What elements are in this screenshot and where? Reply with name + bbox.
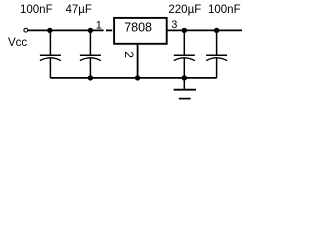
terminal Vcc (open circle)	[24, 28, 28, 32]
svg-text:3: 3	[171, 19, 177, 31]
pin 1 stub of U1	[106, 29, 112, 31]
ground	[174, 78, 196, 99]
svg-text:Vcc: Vcc	[8, 37, 27, 49]
capacitor C3 220µF	[174, 30, 195, 78]
svg-text:220µF: 220µF	[168, 4, 201, 16]
svg-text:2: 2	[122, 51, 136, 58]
node junction dot C3 top	[182, 28, 187, 33]
wire ground rail (bottom horizontal)	[50, 77, 216, 79]
capacitor C1 100nF	[40, 30, 61, 78]
svg-text:47µF: 47µF	[66, 4, 92, 16]
node junction dot rail C2	[88, 75, 93, 80]
node junction dot rail ground	[182, 75, 187, 80]
capacitor C4 100nF	[206, 30, 227, 78]
svg-text:7808: 7808	[124, 21, 152, 35]
svg-text:100nF: 100nF	[20, 4, 53, 16]
svg-text:100nF: 100nF	[208, 4, 241, 16]
pin 2 wire of U1 (vertical to ground rail)	[137, 44, 139, 78]
node junction dot C4 top	[214, 28, 219, 33]
node junction dot rail pin2	[135, 75, 140, 80]
capacitor C2 47µF	[80, 30, 101, 78]
op-amp U1 body 7808 regulator box	[114, 18, 167, 44]
svg-text:1: 1	[96, 20, 102, 32]
wire Vcc input (top left horizontal)	[28, 29, 104, 31]
node junction dot C1 top	[47, 28, 52, 33]
wire output (top right horizontal)	[167, 29, 242, 31]
node junction dot C2 top	[88, 28, 93, 33]
